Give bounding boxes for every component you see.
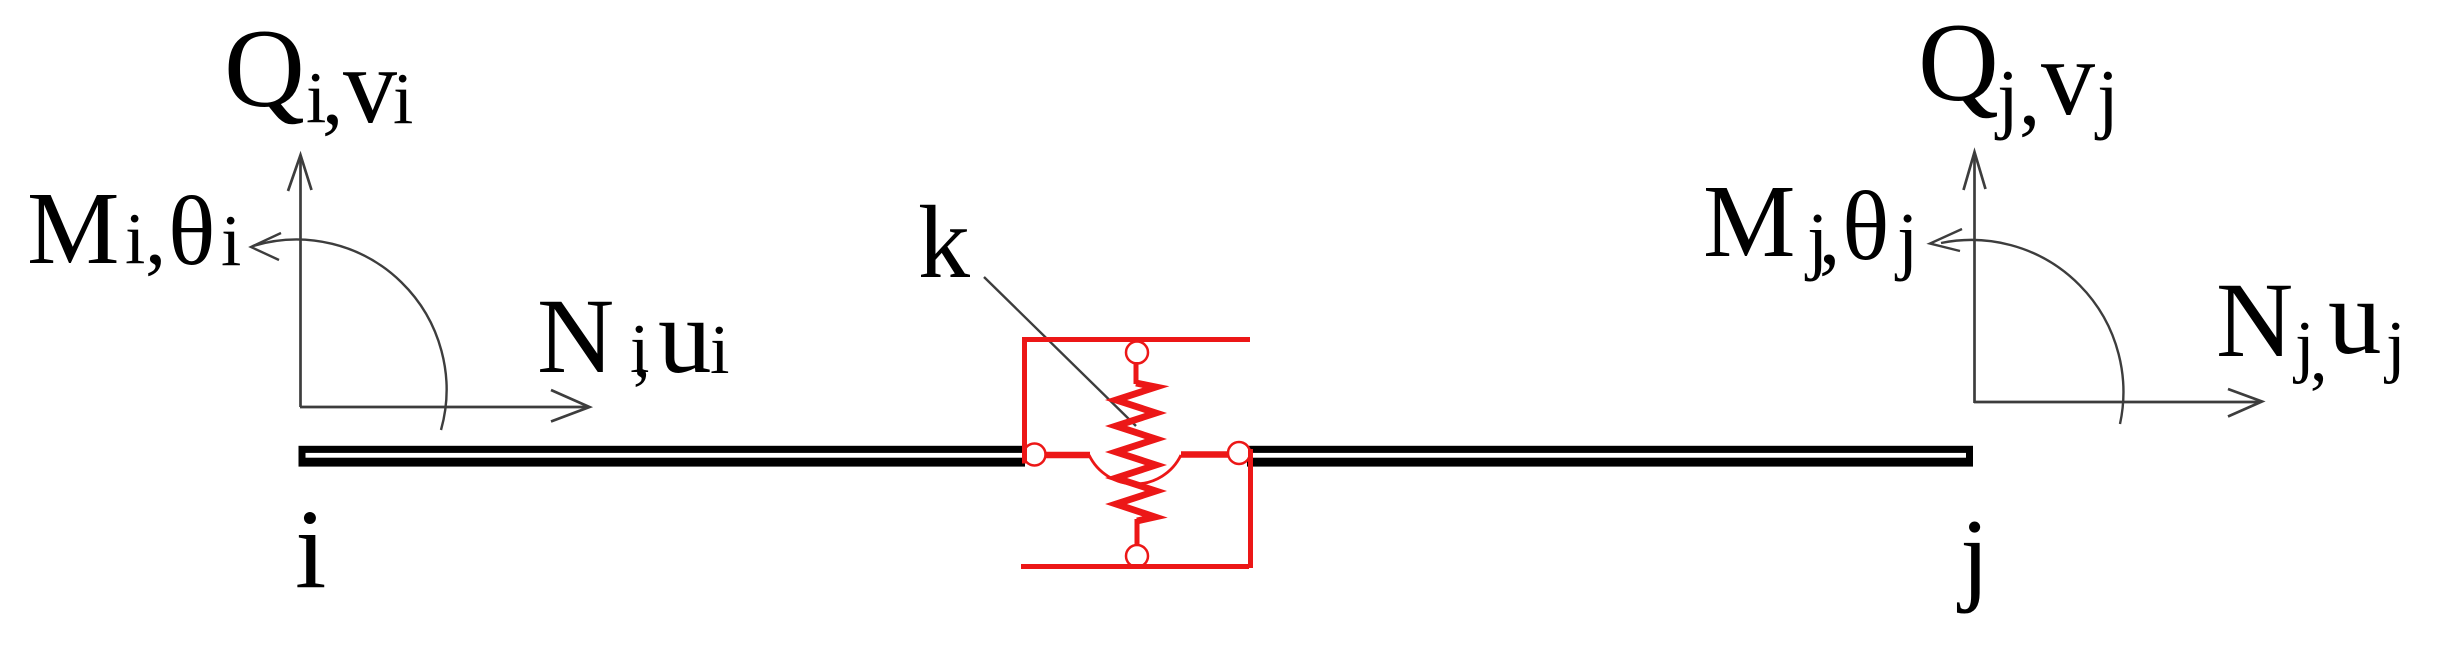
svg-text:,: , bbox=[633, 315, 651, 392]
svg-text:j: j bbox=[1894, 198, 1918, 282]
svg-text:Q: Q bbox=[1918, 1, 1999, 125]
svg-text:,: , bbox=[2310, 319, 2328, 396]
svg-text:,: , bbox=[145, 188, 166, 282]
svg-text:i: i bbox=[221, 200, 241, 281]
svg-text:j: j bbox=[1956, 497, 1989, 614]
svg-text:M: M bbox=[1703, 164, 1795, 279]
svg-text:j: j bbox=[2383, 308, 2405, 385]
svg-text:j: j bbox=[2094, 54, 2119, 141]
svg-text:N: N bbox=[2216, 262, 2293, 380]
svg-text:v: v bbox=[2041, 19, 2095, 138]
svg-text:θ: θ bbox=[1842, 172, 1889, 281]
svg-text:Q: Q bbox=[224, 7, 305, 131]
svg-text:M: M bbox=[27, 171, 119, 286]
svg-text:j: j bbox=[1994, 54, 2019, 141]
svg-text:i: i bbox=[710, 312, 729, 389]
svg-text:u: u bbox=[658, 278, 712, 396]
svg-text:,: , bbox=[322, 48, 343, 142]
svg-text:u: u bbox=[2328, 259, 2382, 377]
svg-text:N: N bbox=[537, 278, 614, 396]
svg-text:,: , bbox=[1819, 188, 1840, 282]
svg-text:,: , bbox=[2019, 49, 2040, 143]
svg-text:i: i bbox=[295, 487, 326, 612]
svg-text:i: i bbox=[393, 58, 413, 139]
svg-text:k: k bbox=[918, 185, 970, 300]
svg-text:v: v bbox=[343, 27, 397, 146]
svg-text:θ: θ bbox=[168, 177, 215, 286]
svg-text:i: i bbox=[125, 198, 145, 279]
